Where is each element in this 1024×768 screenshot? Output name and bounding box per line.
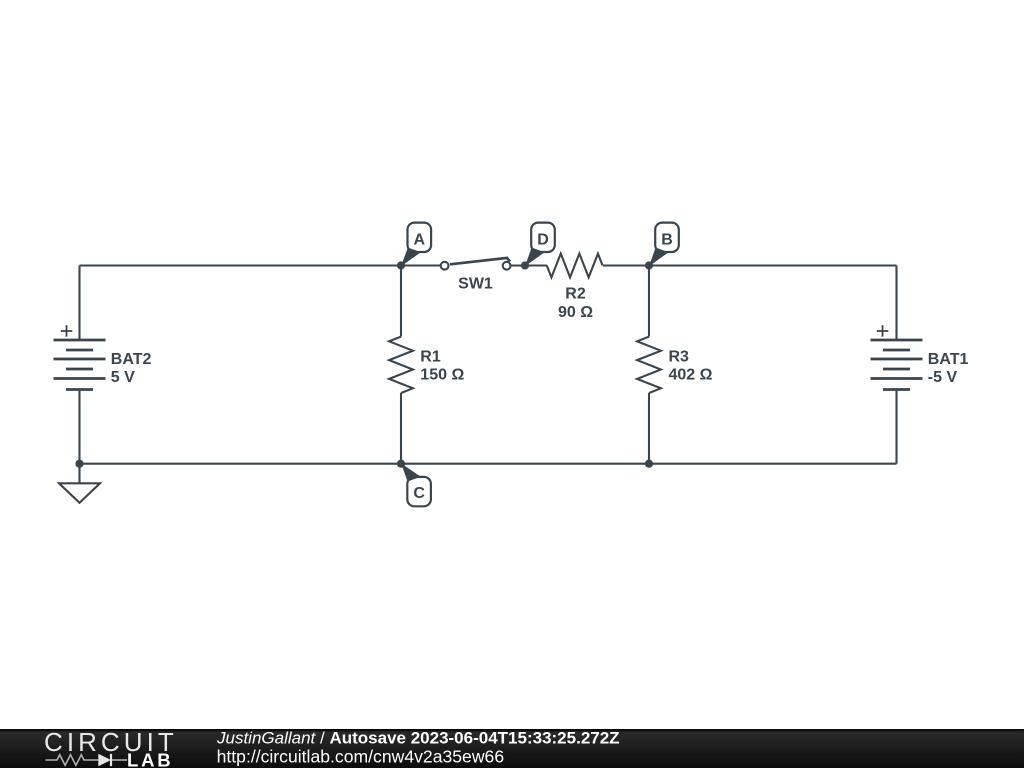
- svg-text:R3: R3: [669, 349, 690, 366]
- svg-text:JustinGallant / Autosave 2023-: JustinGallant / Autosave 2023-06-04T15:3…: [216, 729, 620, 748]
- svg-text:90 Ω: 90 Ω: [558, 304, 593, 321]
- svg-text:A: A: [414, 232, 426, 249]
- svg-text:402 Ω: 402 Ω: [669, 367, 713, 384]
- svg-text:C: C: [413, 485, 425, 502]
- svg-text:SW1: SW1: [458, 276, 493, 293]
- svg-text:LAB: LAB: [127, 749, 173, 768]
- svg-text:B: B: [661, 232, 673, 249]
- svg-text:BAT1: BAT1: [928, 351, 969, 368]
- svg-text:5 V: 5 V: [111, 369, 135, 386]
- svg-text:-5 V: -5 V: [928, 369, 958, 386]
- svg-text:BAT2: BAT2: [111, 351, 152, 368]
- svg-text:R1: R1: [420, 349, 441, 366]
- svg-text:http://circuitlab.com/cnw4v2a3: http://circuitlab.com/cnw4v2a35ew66: [217, 746, 505, 766]
- svg-text:R2: R2: [565, 286, 586, 303]
- svg-text:D: D: [537, 232, 549, 249]
- svg-text:150 Ω: 150 Ω: [420, 367, 464, 384]
